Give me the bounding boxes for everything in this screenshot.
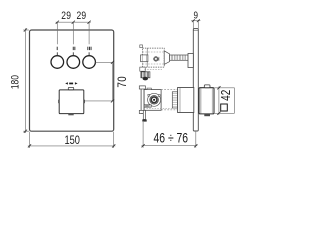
- tick 70 top: [111, 61, 114, 64]
- upper cartridge: tiny square top-left: [140, 45, 143, 48]
- dim 29/29 extension line right: [88, 22, 90, 44]
- dim 9 extension right: [197, 21, 199, 29]
- tick 150 right: [112, 144, 115, 147]
- dark port at body bottom: [144, 105, 151, 108]
- tick 70 bottom: [111, 99, 114, 102]
- dim 70 leader from handle: [84, 100, 114, 102]
- handle left nub: [58, 100, 59, 104]
- square handle (front): [59, 90, 84, 114]
- handle bottom tab: [68, 114, 73, 116]
- dim 9 extension left: [192, 21, 194, 29]
- block inner line: [179, 88, 181, 113]
- hidden dashed line below body: [145, 69, 163, 71]
- below-body small rect: [140, 67, 145, 71]
- handle side view: [199, 88, 214, 114]
- ring: [150, 96, 159, 105]
- svg-text:70: 70: [116, 76, 129, 88]
- threaded stem: [170, 55, 188, 60]
- dim 29/29 extension line middle: [72, 22, 74, 44]
- dim 46-76 extension right (plate): [195, 131, 197, 148]
- label II: [72, 47, 75, 50]
- tick 180 top: [24, 28, 27, 31]
- svg-text:9: 9: [194, 10, 199, 21]
- big block before plate: [178, 88, 194, 113]
- knob I circle: [51, 56, 64, 69]
- tiny screw left on circle: [148, 94, 150, 96]
- lower valve body: [144, 90, 161, 111]
- hidden dashed line at body bottom: [147, 107, 173, 109]
- pipe below body: [143, 110, 145, 119]
- tick 9 left: [192, 19, 195, 22]
- svg-text:42: 42: [219, 90, 234, 101]
- knob II circle: [67, 56, 80, 69]
- dim 29/29 dimension line: [56, 21, 91, 23]
- svg-text:29: 29: [61, 10, 71, 22]
- dim 46-76 dimension line: [142, 145, 198, 147]
- indicator dash above knob II: [72, 52, 74, 55]
- tick at middle: [72, 21, 75, 24]
- dim 180 dimension line: [24, 28, 26, 133]
- upper body screw circle: [154, 57, 158, 61]
- svg-text:46 ÷ 76: 46 ÷ 76: [154, 130, 189, 146]
- tick at right: [88, 21, 91, 24]
- handle top tab (side): [204, 85, 210, 88]
- svg-text:29: 29: [76, 10, 86, 22]
- dim 180 extension bottom: [23, 130, 29, 132]
- tick 46-76 left: [142, 144, 145, 147]
- tick at left: [56, 21, 59, 24]
- dashed line bottom (adjustable): [161, 109, 178, 111]
- dashed line top (adjustable): [161, 89, 178, 91]
- label I: [56, 47, 59, 50]
- upper body left box: [141, 55, 148, 62]
- square glyph of square42: [221, 104, 228, 111]
- knob III circle: [83, 56, 96, 69]
- svg-text:150: 150: [65, 134, 80, 147]
- small rect on body top: [147, 88, 151, 90]
- tick sq42 bottom: [217, 112, 220, 115]
- threaded strip: [172, 92, 177, 108]
- svg-text:180: 180: [10, 75, 22, 90]
- arrow right (points right): [75, 82, 78, 84]
- tick 46-76 right: [194, 144, 197, 147]
- handle bottom tab (side): [204, 114, 210, 116]
- flange bottom tab: [139, 110, 145, 113]
- dim 29/29 extension line left: [56, 22, 58, 44]
- handle right nub: [84, 100, 85, 104]
- dim 70 leader from knob III: [96, 61, 114, 63]
- screw diamond: [154, 57, 158, 60]
- plate (150x180 trim plate outline): [30, 30, 114, 131]
- tick sq42 top: [217, 86, 220, 89]
- stem threads: [171, 55, 185, 60]
- center dot: [153, 99, 155, 101]
- tiny screw right on circle: [158, 95, 160, 97]
- dim square42 dimension line: [218, 87, 220, 115]
- dim square42 extension top: [214, 87, 234, 89]
- dim 150 extension left: [29, 132, 31, 148]
- pipe foot: [142, 119, 146, 121]
- arrow bar: [69, 83, 73, 85]
- collar at plate: [188, 54, 193, 68]
- indicator dash above knob III: [88, 52, 90, 55]
- handle inner line: [200, 88, 202, 114]
- below-body hatched block: [141, 72, 150, 78]
- arrow left (points left): [65, 82, 68, 84]
- dim 180 extension top: [23, 29, 29, 31]
- dim square42 right line: [233, 88, 235, 114]
- wall plate edge-on: [193, 29, 198, 131]
- handle right inner line: [211, 88, 213, 113]
- upper body hidden line: [143, 51, 165, 53]
- tick 9 right: [197, 19, 200, 22]
- dim 150 extension right: [113, 132, 115, 148]
- concentric circles outer: [148, 93, 161, 106]
- below-body dark ellipse: [143, 77, 148, 81]
- dim 9 dimension line: [191, 20, 200, 22]
- handle top tab: [68, 87, 73, 89]
- upper cartridge body: [143, 48, 165, 67]
- dim square42 extension bottom: [214, 112, 234, 114]
- dim 46-76 extension left: [142, 122, 144, 148]
- dark knurl ring: [151, 97, 157, 103]
- dim 70 dimension line: [112, 62, 114, 101]
- short line right of screw: [158, 57, 160, 61]
- tick 180 bottom: [24, 130, 27, 133]
- dim 150 dimension line: [28, 145, 116, 147]
- plate chamfer line: [193, 29, 198, 31]
- flange top tab: [139, 86, 145, 89]
- upper body inner vertical line: [146, 48, 148, 67]
- tick 150 left: [28, 144, 31, 147]
- lower valve: flange: [141, 86, 144, 114]
- upper body left box inner line: [141, 55, 143, 62]
- cone taper: [164, 51, 169, 65]
- indicator dash above knob I: [56, 52, 58, 55]
- label III: [86, 47, 89, 50]
